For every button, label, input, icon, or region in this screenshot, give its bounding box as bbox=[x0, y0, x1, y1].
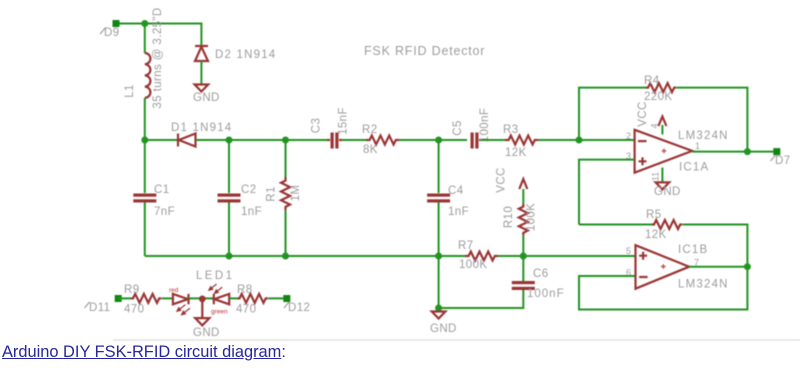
resistor R1 bbox=[281, 140, 290, 256]
svg-text:1M: 1M bbox=[290, 185, 302, 202]
tick (D12 label origin) bbox=[284, 302, 289, 308]
svg-text:LM324N: LM324N bbox=[678, 279, 729, 291]
op-amp IC1B bbox=[636, 245, 690, 289]
resistor R9 bbox=[131, 294, 161, 303]
LED red (LED1) bbox=[173, 294, 190, 315]
svg-text:GND: GND bbox=[430, 323, 457, 335]
capacitor C3 bbox=[327, 133, 342, 149]
svg-text:470: 470 bbox=[124, 304, 144, 316]
svg-text:4: 4 bbox=[650, 123, 660, 128]
wire: R2 to C5 bbox=[399, 139, 467, 141]
node: C4 bottom / GND bbox=[435, 253, 442, 260]
wire: top net D9 to D2 corner bbox=[116, 24, 201, 46]
svg-text:GND: GND bbox=[193, 327, 220, 339]
svg-text:100K: 100K bbox=[526, 203, 538, 231]
svg-text:D12: D12 bbox=[288, 302, 310, 314]
node: output junction bbox=[744, 148, 751, 155]
svg-text:220K: 220K bbox=[644, 91, 672, 103]
pad D7 bbox=[773, 148, 780, 155]
svg-text:C2: C2 bbox=[241, 184, 257, 196]
svg-text:15nF: 15nF bbox=[338, 107, 350, 135]
wire: center to LED GND bbox=[201, 299, 203, 318]
svg-text:D1 1N914: D1 1N914 bbox=[171, 122, 232, 134]
svg-text:11: 11 bbox=[651, 172, 661, 181]
node: C2 top bbox=[226, 137, 233, 144]
wire: main line D1 to C3 bbox=[196, 139, 328, 141]
svg-text:7nF: 7nF bbox=[154, 206, 175, 218]
wire: pin3 to R5 left bbox=[579, 160, 635, 225]
vcc supply (IC1A pin 4) bbox=[658, 117, 666, 135]
svg-text:5: 5 bbox=[626, 246, 631, 256]
svg-text:R4: R4 bbox=[644, 75, 660, 87]
tick (D7 label origin) bbox=[771, 155, 776, 161]
wire: IC1B output bbox=[689, 266, 747, 268]
pad D9 bbox=[113, 20, 120, 27]
pad D12 bbox=[283, 295, 290, 302]
wire: R8 to D12 bbox=[268, 297, 287, 299]
node: feedback junction bbox=[576, 137, 583, 144]
separator line bbox=[113, 339, 800, 341]
svg-text:R5: R5 bbox=[646, 209, 662, 221]
resistor R4 bbox=[579, 83, 747, 152]
wire: bottom rail bbox=[145, 255, 465, 257]
wire: D2 to GND bbox=[200, 61, 202, 84]
ground (LED1) bbox=[195, 318, 209, 325]
svg-text:R7: R7 bbox=[458, 240, 474, 252]
svg-text:12K: 12K bbox=[645, 229, 667, 241]
capacitor C1 bbox=[133, 140, 156, 256]
resistor R7 bbox=[465, 252, 498, 261]
svg-text:R1: R1 bbox=[266, 186, 278, 202]
svg-text:35 turns @ 3.25"D: 35 turns @ 3.25"D bbox=[152, 7, 164, 108]
svg-text:GND: GND bbox=[654, 186, 681, 198]
vcc supply (R10) bbox=[519, 179, 527, 204]
capacitor C4 bbox=[427, 140, 450, 256]
svg-text:8K: 8K bbox=[363, 144, 378, 156]
svg-text:R9: R9 bbox=[124, 284, 140, 296]
wire: rail R7 to pin5 bbox=[498, 255, 635, 257]
svg-text:IC1B: IC1B bbox=[678, 244, 708, 256]
svg-text:LED1: LED1 bbox=[196, 270, 234, 282]
svg-text:C6: C6 bbox=[533, 268, 549, 280]
LED green (LED1) bbox=[209, 284, 229, 304]
svg-text:C3: C3 bbox=[311, 118, 323, 134]
wire: R3 to IC1A pin2 bbox=[538, 139, 634, 141]
node: R10 bottom bbox=[520, 253, 527, 260]
svg-text:IC1A: IC1A bbox=[679, 162, 709, 174]
node: junction top of L1 bbox=[141, 20, 148, 27]
svg-text:VCC: VCC bbox=[637, 101, 649, 126]
diode D1 (cathode left) bbox=[178, 134, 196, 147]
resistor R8 bbox=[238, 294, 268, 303]
wire: L1 lower lead bbox=[144, 98, 146, 140]
svg-text:FSK RFID Detector: FSK RFID Detector bbox=[364, 44, 485, 58]
wire: GND drop and C6 loop bbox=[439, 256, 524, 308]
caption link bbox=[2, 343, 286, 362]
resistor R10 bbox=[519, 204, 528, 256]
op-amp IC1A bbox=[635, 130, 693, 173]
capacitor C2 bbox=[218, 140, 241, 256]
capacitor C5 bbox=[471, 133, 483, 149]
node: R1 top bbox=[282, 137, 289, 144]
svg-text:1nF: 1nF bbox=[448, 206, 469, 218]
svg-text:LM324N: LM324N bbox=[678, 130, 729, 142]
node: R1 bottom bbox=[282, 253, 289, 260]
svg-text:C5: C5 bbox=[452, 120, 464, 136]
svg-text:6: 6 bbox=[626, 268, 631, 278]
svg-text:D11: D11 bbox=[89, 302, 110, 314]
resistor R3 bbox=[505, 136, 538, 145]
diode D2 (cathode up) bbox=[195, 46, 208, 61]
ground (IC1A pin 11) bbox=[656, 168, 670, 190]
wire: green LED to R8 bbox=[229, 297, 237, 299]
tick (D11 label origin) bbox=[85, 302, 90, 308]
svg-text:GND: GND bbox=[193, 92, 220, 104]
svg-text:1nF: 1nF bbox=[241, 206, 262, 218]
svg-text:1: 1 bbox=[695, 141, 700, 151]
ground (below D2) bbox=[195, 85, 209, 92]
capacitor C6 bbox=[512, 256, 535, 290]
resistor R2 bbox=[366, 136, 399, 145]
svg-text:D9: D9 bbox=[104, 27, 120, 39]
svg-text:2: 2 bbox=[626, 131, 631, 141]
svg-text:D7: D7 bbox=[775, 155, 791, 167]
svg-text:470: 470 bbox=[236, 304, 256, 316]
svg-text:green: green bbox=[211, 309, 228, 316]
svg-text:R8: R8 bbox=[237, 284, 253, 296]
svg-text:R3: R3 bbox=[503, 124, 519, 136]
svg-text:12K: 12K bbox=[505, 147, 527, 159]
pad D11 bbox=[115, 295, 122, 302]
wire: C5 to R3 bbox=[482, 139, 505, 141]
svg-text:R2: R2 bbox=[362, 124, 378, 136]
svg-text:VCC: VCC bbox=[496, 167, 508, 192]
wire: R9 to red LED bbox=[162, 297, 173, 299]
wire: output IC1A to D7 bbox=[692, 151, 777, 153]
ground (C4/C6 node) bbox=[432, 312, 446, 319]
svg-text:C4: C4 bbox=[448, 185, 464, 197]
node: L1/D1/C1 junction bbox=[141, 137, 148, 144]
node: IC1B output junction bbox=[744, 263, 751, 270]
resistor R5 bbox=[579, 220, 747, 310]
node: C2 bottom bbox=[226, 253, 233, 260]
svg-text:100nF: 100nF bbox=[527, 288, 565, 300]
svg-text:C1: C1 bbox=[154, 184, 170, 196]
wire: red LED to center node bbox=[189, 297, 215, 299]
svg-text:100nF: 100nF bbox=[479, 108, 491, 143]
svg-text:D2 1N914: D2 1N914 bbox=[215, 49, 276, 61]
svg-text:red: red bbox=[169, 287, 179, 294]
wire: D11 to R9 bbox=[118, 297, 131, 299]
svg-text:L1: L1 bbox=[124, 84, 136, 98]
node: GND junction bbox=[435, 305, 442, 312]
wire: C3 to R2 bbox=[342, 139, 366, 141]
node: C4 top bbox=[435, 137, 442, 144]
inductor L1 bbox=[145, 53, 151, 98]
svg-text:100K: 100K bbox=[459, 259, 487, 271]
wire: main line y=140 left part bbox=[145, 139, 177, 141]
wire: L1 upper lead bbox=[144, 24, 146, 54]
node: LED center junction bbox=[199, 296, 206, 303]
svg-text:R10: R10 bbox=[503, 206, 515, 228]
tick (D9 label origin) bbox=[100, 28, 106, 35]
